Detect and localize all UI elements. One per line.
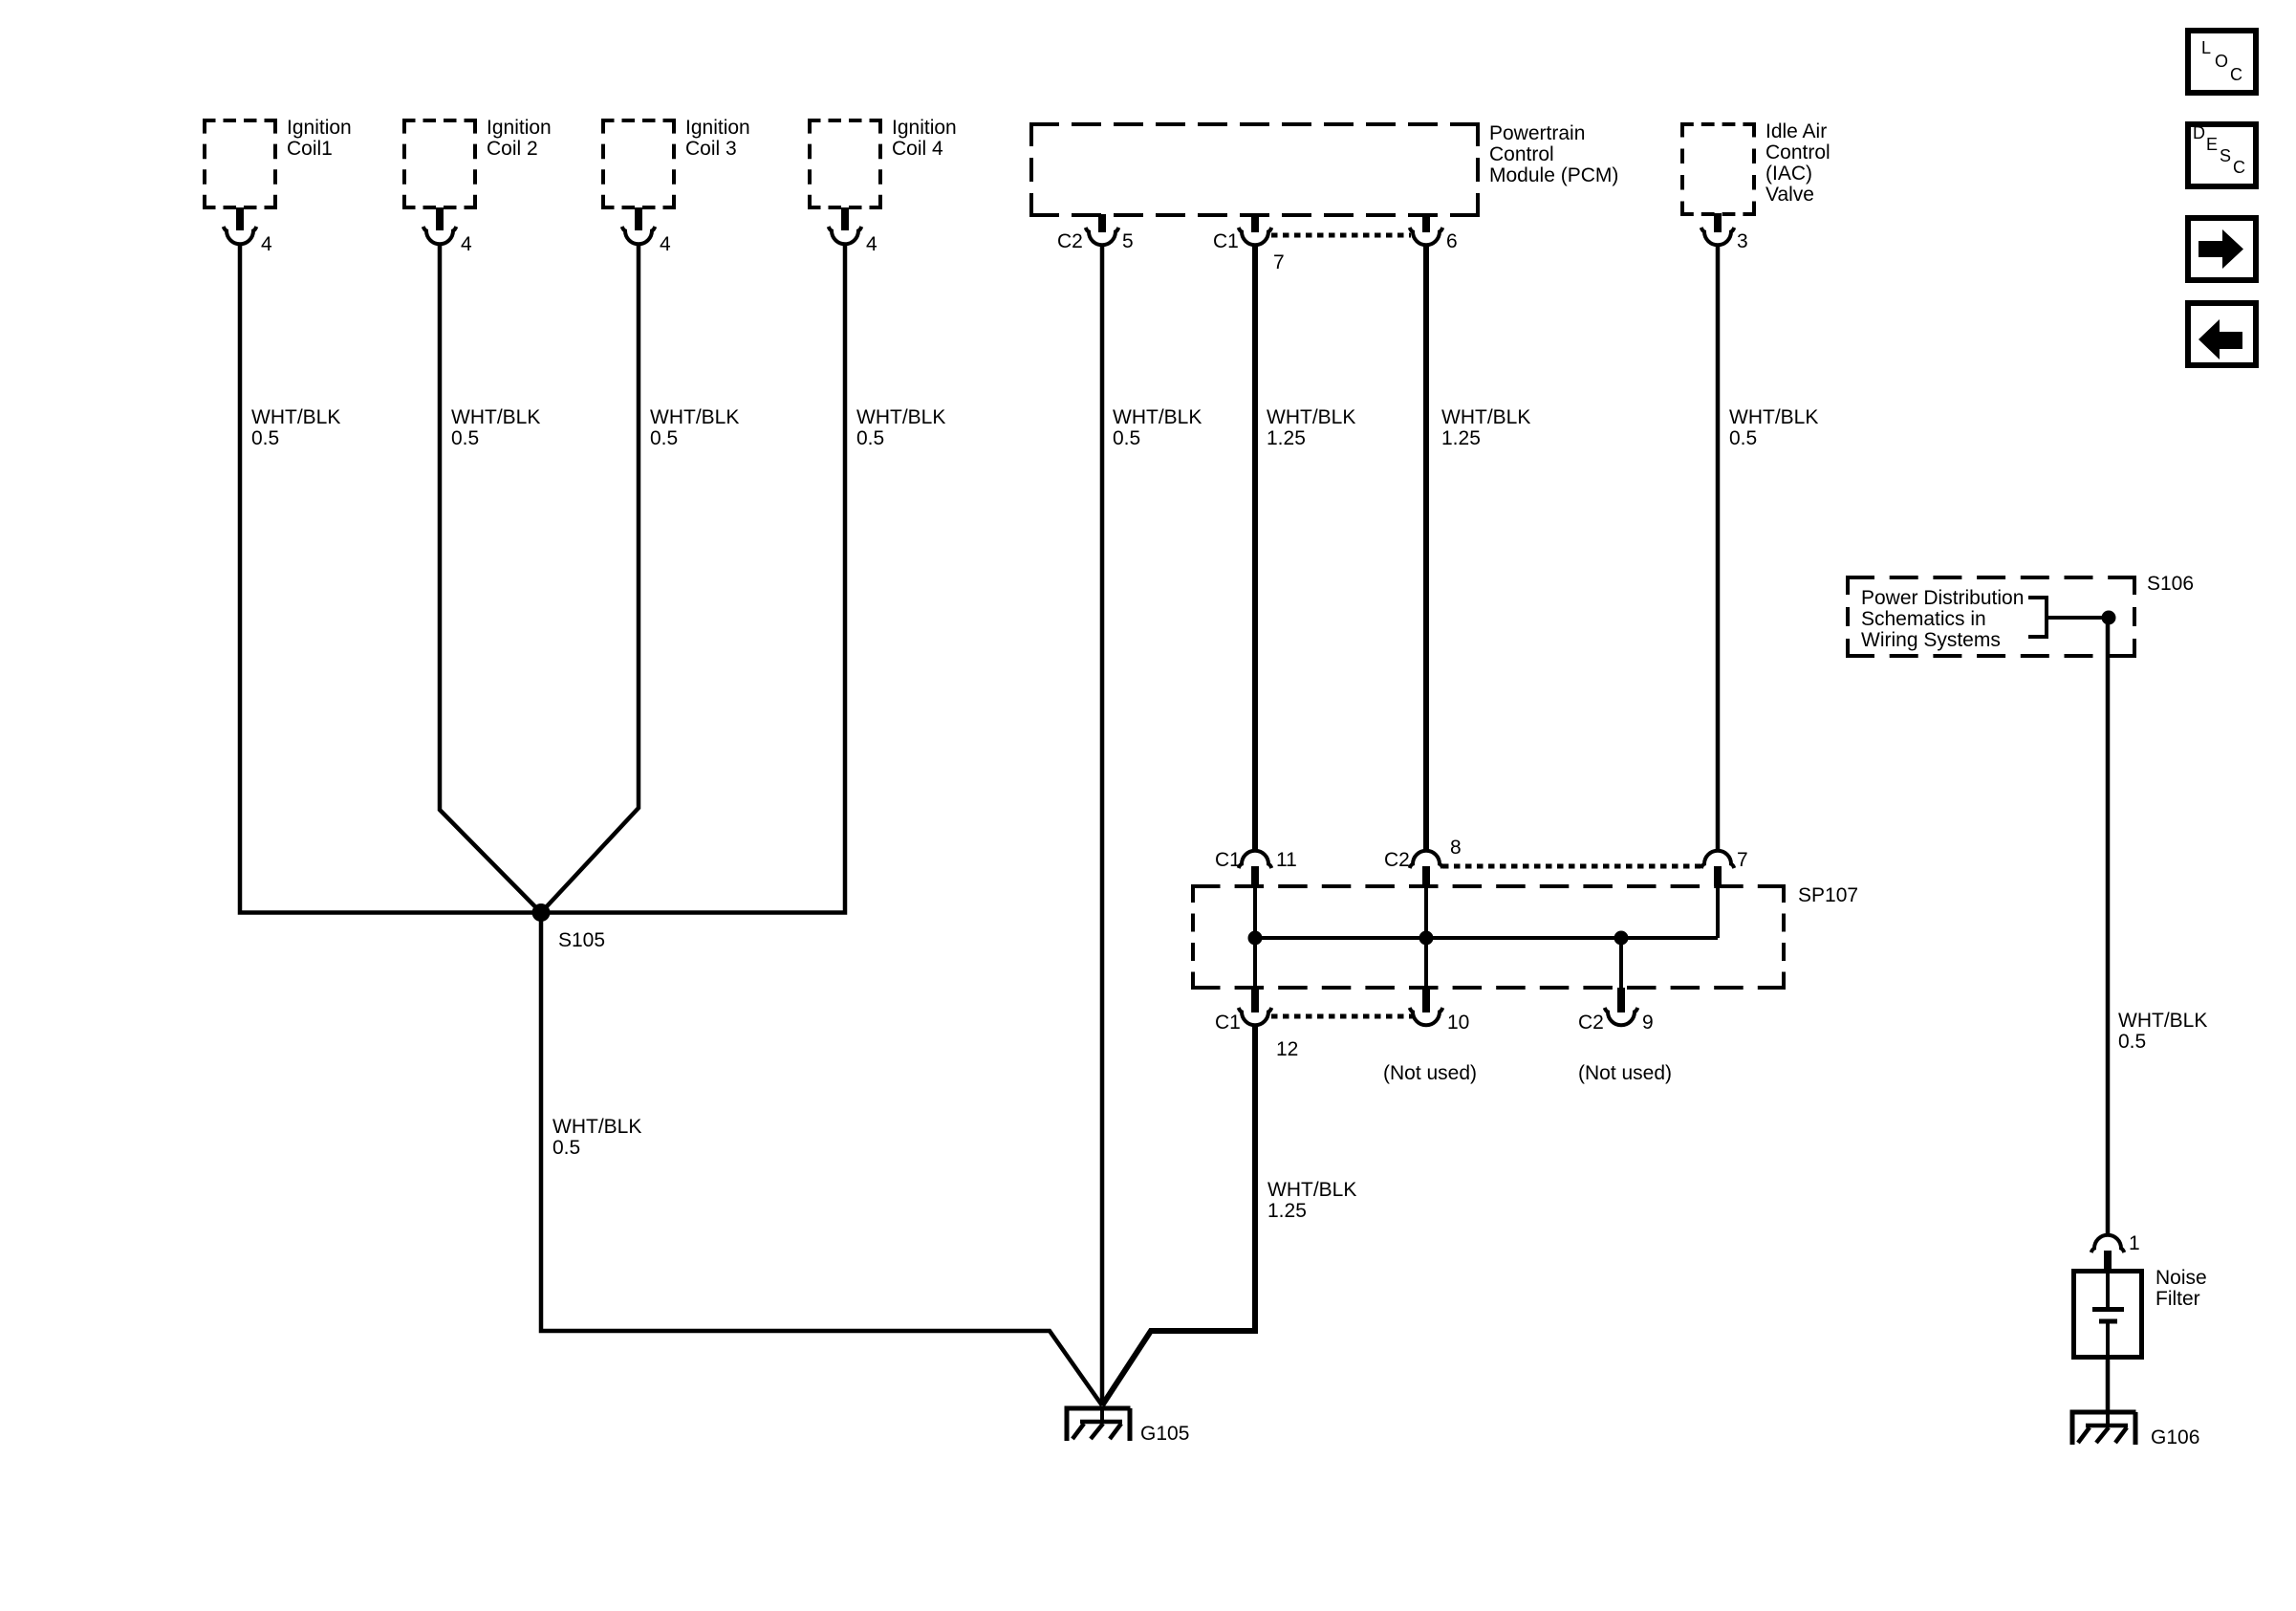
svg-text:Idle Air: Idle Air <box>1765 120 1827 142</box>
svg-text:Control: Control <box>1489 143 1554 165</box>
svg-text:G105: G105 <box>1140 1423 1189 1445</box>
svg-text:WHT/BLK: WHT/BLK <box>2118 1010 2207 1032</box>
svg-text:G106: G106 <box>2151 1426 2199 1448</box>
svg-text:Ignition: Ignition <box>287 117 352 139</box>
svg-text:C: C <box>2230 65 2242 84</box>
svg-text:5: 5 <box>1122 230 1134 252</box>
svg-text:O: O <box>2215 52 2228 71</box>
svg-text:4: 4 <box>660 233 671 255</box>
svg-text:Coil 2: Coil 2 <box>487 138 538 160</box>
svg-text:0.5: 0.5 <box>552 1137 580 1159</box>
svg-text:WHT/BLK: WHT/BLK <box>552 1116 641 1138</box>
svg-text:WHT/BLK: WHT/BLK <box>1113 406 1202 428</box>
svg-text:Ignition: Ignition <box>892 117 957 139</box>
svg-text:(Not used): (Not used) <box>1578 1062 1672 1084</box>
svg-text:0.5: 0.5 <box>856 427 884 449</box>
svg-text:0.5: 0.5 <box>1729 427 1757 449</box>
svg-text:1.25: 1.25 <box>1441 427 1481 449</box>
svg-text:WHT/BLK: WHT/BLK <box>650 406 739 428</box>
svg-text:0.5: 0.5 <box>650 427 678 449</box>
svg-text:Valve: Valve <box>1765 184 1814 206</box>
svg-text:C2: C2 <box>1057 230 1083 252</box>
svg-text:Filter: Filter <box>2155 1288 2200 1310</box>
svg-text:4: 4 <box>461 233 472 255</box>
svg-text:C2: C2 <box>1384 849 1410 871</box>
svg-text:WHT/BLK: WHT/BLK <box>856 406 945 428</box>
svg-text:C1: C1 <box>1215 849 1241 871</box>
svg-text:C1: C1 <box>1215 1012 1241 1034</box>
svg-text:6: 6 <box>1446 230 1458 252</box>
svg-text:Wiring Systems: Wiring Systems <box>1861 629 2001 651</box>
svg-text:1.25: 1.25 <box>1267 427 1306 449</box>
svg-text:9: 9 <box>1642 1012 1654 1034</box>
svg-text:(IAC): (IAC) <box>1765 163 1812 185</box>
svg-text:Coil 3: Coil 3 <box>685 138 737 160</box>
svg-text:Schematics in: Schematics in <box>1861 608 1986 630</box>
svg-text:Ignition: Ignition <box>487 117 552 139</box>
svg-text:SP107: SP107 <box>1798 884 1858 906</box>
svg-text:C: C <box>2233 158 2245 177</box>
svg-text:0.5: 0.5 <box>2118 1031 2146 1053</box>
svg-text:S: S <box>2220 146 2231 165</box>
svg-text:WHT/BLK: WHT/BLK <box>1441 406 1530 428</box>
svg-text:WHT/BLK: WHT/BLK <box>451 406 540 428</box>
svg-text:Coil 4: Coil 4 <box>892 138 943 160</box>
svg-text:Powertrain: Powertrain <box>1489 122 1585 144</box>
svg-text:(Not used): (Not used) <box>1383 1062 1477 1084</box>
svg-text:7: 7 <box>1737 849 1748 871</box>
svg-text:WHT/BLK: WHT/BLK <box>1729 406 1818 428</box>
svg-text:S105: S105 <box>558 929 605 951</box>
svg-text:8: 8 <box>1450 837 1462 859</box>
svg-text:4: 4 <box>261 233 272 255</box>
svg-text:3: 3 <box>1737 230 1748 252</box>
svg-text:4: 4 <box>866 233 877 255</box>
svg-text:Power Distribution: Power Distribution <box>1861 587 2024 609</box>
svg-text:E: E <box>2206 135 2218 154</box>
svg-text:1.25: 1.25 <box>1267 1200 1307 1222</box>
svg-text:Module (PCM): Module (PCM) <box>1489 164 1618 186</box>
svg-text:L: L <box>2201 38 2211 57</box>
svg-text:12: 12 <box>1276 1038 1298 1060</box>
svg-text:WHT/BLK: WHT/BLK <box>1267 406 1355 428</box>
svg-text:Ignition: Ignition <box>685 117 750 139</box>
svg-text:Coil1: Coil1 <box>287 138 333 160</box>
svg-text:WHT/BLK: WHT/BLK <box>251 406 340 428</box>
svg-text:WHT/BLK: WHT/BLK <box>1267 1179 1356 1201</box>
svg-text:Noise: Noise <box>2155 1267 2207 1289</box>
svg-text:C1: C1 <box>1213 230 1239 252</box>
svg-text:C2: C2 <box>1578 1012 1604 1034</box>
svg-text:1: 1 <box>2129 1232 2140 1254</box>
svg-text:0.5: 0.5 <box>451 427 479 449</box>
svg-text:11: 11 <box>1276 849 1297 871</box>
svg-text:0.5: 0.5 <box>251 427 279 449</box>
svg-text:Control: Control <box>1765 142 1830 163</box>
svg-text:S106: S106 <box>2147 573 2194 595</box>
svg-text:0.5: 0.5 <box>1113 427 1140 449</box>
svg-text:7: 7 <box>1273 251 1285 273</box>
svg-text:D: D <box>2193 123 2205 142</box>
svg-text:10: 10 <box>1447 1012 1469 1034</box>
